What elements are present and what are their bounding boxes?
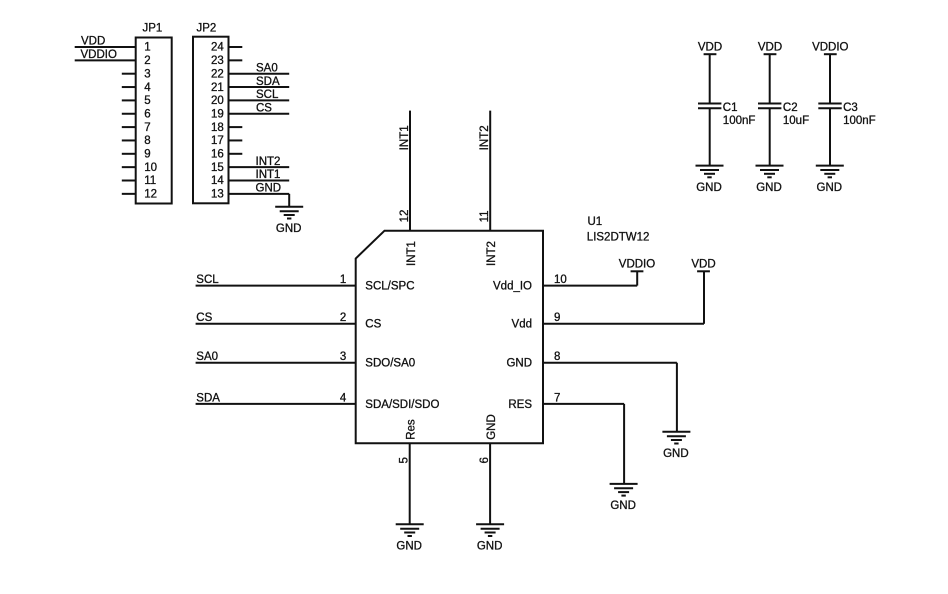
IC U1 reference designator: [588, 216, 603, 228]
U1 pin name SDA/SDI/SDO: [365, 399, 439, 411]
JP1 pin 11 stub wire: [122, 180, 136, 182]
U1 pin 4 number: [340, 392, 347, 404]
wire VDDIO to C3 top plate: [829, 54, 831, 103]
svg-text:SDA: SDA: [196, 392, 220, 404]
U1 pin 9 number: [554, 312, 560, 324]
svg-text:1: 1: [340, 274, 346, 286]
svg-text:C1: C1: [723, 102, 738, 114]
JP2 pin 24 stub wire: [229, 46, 243, 48]
U1 pin name INT1 (rotated): [406, 241, 418, 266]
JP1 pin 7 number: [144, 122, 150, 134]
wire GND from JP2 pin 13: [229, 193, 290, 195]
svg-text:SDA/SDI/SDO: SDA/SDI/SDO: [365, 399, 439, 411]
svg-text:8: 8: [554, 351, 560, 363]
svg-text:SDO/SA0: SDO/SA0: [365, 358, 415, 370]
svg-text:Vdd: Vdd: [512, 319, 532, 331]
capacitor C2: [758, 102, 809, 127]
svg-text:10: 10: [554, 274, 567, 286]
JP2 pin 19 number: [211, 108, 224, 120]
svg-text:Vdd_IO: Vdd_IO: [493, 281, 532, 293]
svg-text:2: 2: [340, 312, 346, 324]
JP1 pin 5 stub wire: [122, 99, 136, 101]
svg-text:11: 11: [479, 210, 491, 222]
JP1 pin 8 stub wire: [122, 139, 136, 141]
svg-text:INT1: INT1: [399, 125, 411, 150]
svg-text:GND: GND: [486, 414, 498, 440]
JP1 pin 4 number: [144, 82, 151, 94]
svg-text:16: 16: [211, 149, 224, 161]
svg-text:100nF: 100nF: [843, 115, 876, 127]
svg-text:VDDIO: VDDIO: [812, 42, 848, 54]
JP2 pin 18 number: [211, 122, 224, 134]
JP2 pin 16 stub wire: [229, 153, 243, 155]
power symbol VDD (above C2): [758, 42, 782, 55]
net INT2 label (JP2 pin 15): [256, 156, 281, 168]
JP1 pin 8 number: [144, 135, 150, 147]
svg-text:GND: GND: [610, 500, 636, 512]
svg-text:SDA: SDA: [256, 76, 280, 88]
wire CS from JP2 pin 19: [229, 113, 290, 115]
U1 pin name Res (rotated): [406, 419, 418, 440]
U1 pin 12 number (rotated): [399, 210, 411, 223]
U1 pin 1 number: [340, 274, 346, 286]
svg-text:JP2: JP2: [197, 23, 217, 35]
wire INT2 from JP2 pin 15: [229, 166, 290, 168]
JP2 pin 15 number: [211, 162, 224, 174]
ground symbol below C3: [816, 166, 844, 194]
svg-text:10: 10: [144, 162, 157, 174]
U1 pin 10 number: [554, 274, 567, 286]
U1 pin name Vdd_IO: [493, 281, 532, 293]
JP2 pin 18 stub wire: [229, 126, 243, 128]
svg-text:C2: C2: [783, 102, 798, 114]
U1 pin 6 number (rotated): [479, 457, 491, 463]
U1 pin name Vdd: [512, 319, 532, 331]
svg-text:1: 1: [144, 42, 150, 54]
JP1 pin 9 number: [144, 149, 150, 161]
connector JP2 body: [193, 23, 229, 204]
wire U1 pin 7 vertical drop: [623, 404, 625, 484]
svg-text:19: 19: [211, 108, 224, 120]
wire U1 pin 7 horizontal: [543, 403, 624, 405]
power symbol VDD (pin 9): [691, 259, 715, 272]
net SCL label (U1 pin 1): [196, 274, 219, 286]
svg-text:VDD: VDD: [758, 42, 782, 54]
ground symbol below JP2: [275, 207, 303, 235]
U1 pin name INT2 (rotated): [486, 241, 498, 266]
U1 pin name RES: [508, 399, 532, 411]
wire SDA to U1 pin 4: [196, 403, 356, 405]
svg-text:C3: C3: [843, 102, 858, 114]
svg-text:4: 4: [340, 392, 347, 404]
wire C2 bottom plate to ground: [769, 108, 771, 165]
wire U1 pin 8 vertical drop: [676, 363, 678, 432]
wire C3 bottom plate to ground: [829, 108, 831, 165]
svg-text:3: 3: [144, 68, 150, 80]
ground symbol for U1 pin 5: [396, 524, 424, 552]
wire VDD vertical riser: [703, 271, 705, 324]
svg-text:GND: GND: [817, 182, 843, 194]
JP1 pin 5 number: [144, 95, 150, 107]
svg-text:6: 6: [144, 108, 150, 120]
wire U1 pin 10 to VDDIO: [543, 285, 637, 287]
U1 pin 5 number (rotated): [399, 457, 411, 463]
wire INT1 to U1 pin 12 (vertical): [409, 111, 411, 231]
svg-text:VDDIO: VDDIO: [81, 49, 117, 61]
IC U1 LIS2DTW12 outline: [356, 231, 543, 444]
wire INT2 to U1 pin 11 (vertical): [489, 111, 491, 231]
svg-text:GND: GND: [696, 182, 722, 194]
svg-text:INT1: INT1: [406, 241, 418, 266]
wire VDDIO vertical riser: [636, 271, 638, 285]
svg-text:20: 20: [211, 95, 224, 107]
JP1 pin 3 number: [144, 68, 150, 80]
wire SCL from JP2 pin 20: [229, 99, 290, 101]
svg-text:GND: GND: [256, 183, 282, 195]
U1 pin 8 number: [554, 351, 560, 363]
wire INT1 from JP2 pin 14: [229, 180, 290, 182]
svg-text:LIS2DTW12: LIS2DTW12: [587, 232, 650, 244]
IC U1 value LIS2DTW12: [587, 232, 650, 244]
svg-text:GND: GND: [276, 223, 302, 235]
U1 pin 3 number: [340, 351, 346, 363]
JP1 pin 6 number: [144, 108, 150, 120]
svg-text:VDDIO: VDDIO: [619, 259, 655, 271]
svg-text:9: 9: [554, 312, 560, 324]
JP1 pin 1 number: [144, 42, 150, 54]
net CS label (JP2 pin 19): [256, 102, 272, 114]
wire SA0 to U1 pin 3: [196, 362, 356, 364]
JP1 pin 3 stub wire: [122, 73, 136, 75]
ground symbol for U1 pin 8: [662, 432, 690, 460]
ground symbol for U1 pin 6: [476, 524, 504, 552]
net SDA label (JP2 pin 21): [256, 76, 280, 88]
svg-text:INT2: INT2: [486, 241, 498, 266]
ground symbol below C1: [696, 166, 724, 194]
U1 pin name SCL/SPC: [365, 281, 414, 293]
svg-text:Res: Res: [406, 419, 418, 440]
svg-text:17: 17: [211, 135, 224, 147]
svg-text:21: 21: [211, 82, 224, 94]
JP2 pin 14 number: [211, 175, 224, 187]
JP1 pin 4 stub wire: [122, 86, 136, 88]
net INT2 label (rotated): [479, 125, 491, 150]
net SA0 label (U1 pin 3): [196, 351, 218, 363]
wire SA0 from JP2 pin 22: [229, 73, 290, 75]
JP1 pin 2 number: [144, 55, 150, 67]
JP1 pin 9 stub wire: [122, 153, 136, 155]
U1 pin 7 number: [554, 392, 560, 404]
wire VDD to C1 top plate: [709, 54, 711, 103]
JP2 pin 21 number: [211, 82, 224, 94]
net VDD label (JP1 pin 1): [81, 35, 105, 47]
svg-text:7: 7: [554, 392, 560, 404]
wire VDD to C2 top plate: [769, 54, 771, 103]
svg-text:CS: CS: [256, 102, 272, 114]
svg-text:INT2: INT2: [256, 156, 281, 168]
JP1 pin 12 number: [144, 189, 157, 201]
wire C1 bottom plate to ground: [709, 108, 711, 165]
wire VDDIO to JP1 pin 2: [75, 59, 136, 61]
connector JP1 body: [136, 23, 172, 204]
svg-text:15: 15: [211, 162, 224, 174]
svg-text:5: 5: [144, 95, 150, 107]
JP1 pin 11 number: [144, 175, 156, 187]
net SCL label (JP2 pin 20): [256, 89, 279, 101]
svg-text:SCL/SPC: SCL/SPC: [365, 281, 414, 293]
svg-text:SCL: SCL: [196, 274, 219, 286]
svg-text:12: 12: [144, 189, 157, 201]
wire U1 pin 6 vertical drop: [489, 443, 491, 524]
JP2 pin 16 number: [211, 149, 224, 161]
JP2 pin 17 stub wire: [229, 139, 243, 141]
svg-text:12: 12: [399, 210, 411, 223]
svg-text:100nF: 100nF: [723, 115, 756, 127]
JP1 pin 7 stub wire: [122, 126, 136, 128]
net GND label (JP2 pin 13): [256, 183, 282, 195]
JP2 pin 13 number: [211, 189, 224, 201]
power symbol VDDIO (pin 10): [619, 259, 655, 272]
U1 pin 11 number (rotated): [479, 210, 491, 222]
JP2 pin 20 number: [211, 95, 224, 107]
svg-text:GND: GND: [396, 541, 422, 553]
wire SDA from JP2 pin 21: [229, 86, 290, 88]
wire U1 pin 5 vertical drop: [409, 443, 411, 524]
svg-text:8: 8: [144, 135, 150, 147]
U1 pin 2 number: [340, 312, 346, 324]
JP2 pin 22 number: [211, 68, 224, 80]
svg-text:18: 18: [211, 122, 224, 134]
net SDA label (U1 pin 4): [196, 392, 220, 404]
svg-text:CS: CS: [365, 319, 381, 331]
net CS label (U1 pin 2): [196, 312, 212, 324]
svg-text:10uF: 10uF: [783, 115, 809, 127]
wire U1 pin 8 horizontal: [543, 362, 677, 364]
svg-text:INT1: INT1: [256, 169, 281, 181]
power symbol VDDIO (above C3): [812, 42, 848, 55]
ground symbol below C2: [756, 166, 784, 194]
JP1 pin 10 number: [144, 162, 157, 174]
svg-text:GND: GND: [477, 541, 503, 553]
svg-text:11: 11: [144, 175, 156, 187]
JP1 pin 6 stub wire: [122, 113, 136, 115]
svg-text:CS: CS: [196, 312, 212, 324]
net INT1 label (rotated): [399, 125, 411, 150]
svg-text:VDD: VDD: [81, 35, 105, 47]
svg-text:U1: U1: [588, 216, 603, 228]
wire CS to U1 pin 2: [196, 323, 356, 325]
U1 pin name CS: [365, 319, 381, 331]
svg-text:VDD: VDD: [691, 259, 715, 271]
svg-text:9: 9: [144, 149, 150, 161]
svg-text:SA0: SA0: [196, 351, 218, 363]
svg-text:JP1: JP1: [143, 23, 163, 35]
svg-text:2: 2: [144, 55, 150, 67]
svg-text:GND: GND: [506, 358, 532, 370]
capacitor C1: [698, 102, 755, 127]
JP2 pin 24 number: [211, 42, 224, 54]
svg-text:GND: GND: [663, 448, 689, 460]
svg-text:RES: RES: [508, 399, 532, 411]
U1 pin name SDO/SA0: [365, 358, 415, 370]
svg-text:7: 7: [144, 122, 150, 134]
svg-text:INT2: INT2: [479, 125, 491, 150]
JP1 pin 12 stub wire: [122, 193, 136, 195]
svg-text:22: 22: [211, 68, 224, 80]
svg-text:3: 3: [340, 351, 346, 363]
U1 pin name GND (rotated): [486, 414, 498, 440]
svg-text:23: 23: [211, 55, 224, 67]
ground symbol for U1 pin 7: [610, 484, 638, 512]
U1 pin name GND: [506, 358, 532, 370]
power symbol VDD (above C1): [698, 42, 722, 55]
svg-text:4: 4: [144, 82, 151, 94]
net INT1 label (JP2 pin 14): [256, 169, 281, 181]
capacitor C3: [818, 102, 875, 127]
svg-text:SCL: SCL: [256, 89, 279, 101]
net VDDIO label (JP1 pin 2): [81, 49, 117, 61]
JP2 pin 17 number: [211, 135, 224, 147]
svg-text:14: 14: [211, 175, 224, 187]
net SA0 label (JP2 pin 22): [256, 62, 278, 74]
svg-text:13: 13: [211, 189, 224, 201]
wire U1 pin 9 to VDD: [543, 323, 704, 325]
svg-text:24: 24: [211, 42, 224, 54]
JP2 pin 23 number: [211, 55, 224, 67]
wire VDD to JP1 pin 1: [75, 46, 136, 48]
wire SCL to U1 pin 1: [196, 285, 356, 287]
svg-text:GND: GND: [756, 182, 782, 194]
JP1 pin 10 stub wire: [122, 166, 136, 168]
svg-text:VDD: VDD: [698, 42, 722, 54]
svg-text:SA0: SA0: [256, 62, 278, 74]
JP2 pin 23 stub wire: [229, 59, 243, 61]
wire GND vertical drop (JP2 pin 13): [288, 194, 290, 207]
